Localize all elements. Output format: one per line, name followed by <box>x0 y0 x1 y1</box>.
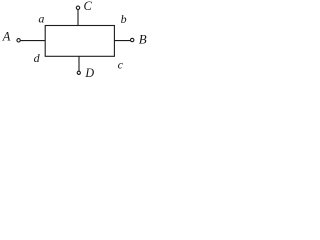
svg-text:C: C <box>84 0 93 13</box>
svg-text:B: B <box>139 31 147 46</box>
two-port network box <box>45 26 114 57</box>
terminal A open circle <box>17 39 20 42</box>
svg-text:b: b <box>121 12 127 26</box>
terminal D open circle <box>77 71 80 74</box>
svg-text:A: A <box>2 29 11 44</box>
svg-text:c: c <box>118 57 124 71</box>
terminal C open circle <box>76 6 79 9</box>
svg-text:d: d <box>34 51 41 65</box>
wire terminal C to box top <box>77 10 79 26</box>
svg-text:a: a <box>38 11 44 25</box>
wire terminal A to box <box>20 40 45 42</box>
wire box to terminal B <box>114 40 130 42</box>
terminal B open circle <box>131 38 134 41</box>
svg-text:D: D <box>84 65 94 78</box>
wire box bottom to terminal D <box>78 56 80 71</box>
